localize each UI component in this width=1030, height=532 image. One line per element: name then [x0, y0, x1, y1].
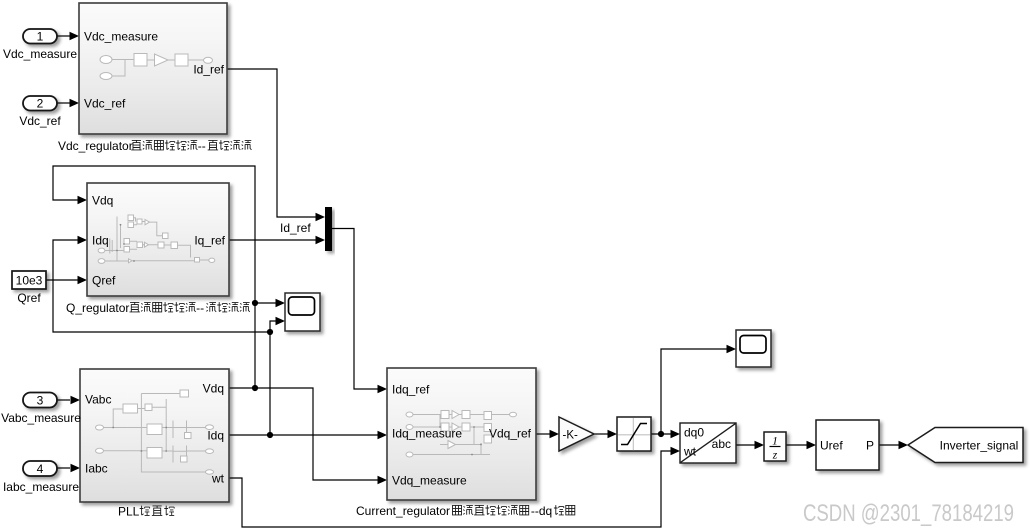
svg-text:Vdq: Vdq: [92, 193, 113, 207]
svg-text:3: 3: [37, 394, 44, 408]
svg-text:Iabc: Iabc: [85, 461, 108, 475]
svg-text:abc: abc: [712, 437, 731, 451]
svg-text:Id_ref: Id_ref: [280, 221, 311, 235]
svg-text:Id_ref: Id_ref: [193, 62, 224, 76]
svg-text:1: 1: [772, 436, 778, 448]
svg-text:Idq: Idq: [207, 428, 224, 442]
svg-text:--: --: [196, 301, 204, 315]
svg-text:-K-: -K-: [563, 429, 579, 441]
svg-text:CSDN @2301_78184219: CSDN @2301_78184219: [803, 500, 1014, 527]
svg-text:PLL: PLL: [118, 505, 140, 519]
svg-text:Idq: Idq: [92, 233, 109, 247]
svg-text:Idq_ref: Idq_ref: [392, 382, 430, 396]
svg-text:Vabc_measure: Vabc_measure: [1, 411, 81, 425]
svg-text:Vdq_ref: Vdq_ref: [489, 426, 532, 440]
svg-text:dq0: dq0: [684, 426, 704, 440]
svg-text:10e3: 10e3: [16, 274, 43, 288]
svg-text:P: P: [866, 438, 874, 452]
svg-text:--dq: --dq: [531, 504, 552, 518]
svg-text:wt: wt: [683, 445, 697, 459]
svg-text:Inverter_signal: Inverter_signal: [940, 438, 1019, 452]
svg-text:Q_regulator: Q_regulator: [66, 301, 129, 315]
svg-text:--: --: [198, 139, 206, 153]
svg-text:Idq_measure: Idq_measure: [392, 426, 462, 440]
svg-text:Vdc_ref: Vdc_ref: [19, 114, 61, 128]
svg-text:Qref: Qref: [17, 291, 41, 305]
svg-text:2: 2: [37, 97, 44, 111]
svg-text:Vdc_measure: Vdc_measure: [84, 29, 158, 43]
svg-text:Vdc_measure: Vdc_measure: [3, 47, 77, 61]
svg-text:Iabc_measure: Iabc_measure: [3, 480, 79, 494]
svg-text:1: 1: [37, 30, 44, 44]
svg-text:Iq_ref: Iq_ref: [194, 233, 225, 247]
svg-text:Vdq: Vdq: [203, 381, 224, 395]
svg-text:Uref: Uref: [820, 438, 843, 452]
svg-text:4: 4: [37, 462, 44, 476]
svg-text:Qref: Qref: [92, 273, 116, 287]
svg-text:Vdq_measure: Vdq_measure: [392, 473, 467, 487]
svg-text:wt: wt: [211, 471, 225, 485]
svg-text:Vabc: Vabc: [85, 392, 111, 406]
svg-text:Vdc_ref: Vdc_ref: [84, 96, 126, 110]
svg-text:z: z: [772, 450, 778, 462]
svg-text:Vdc_regulator: Vdc_regulator: [58, 139, 133, 153]
svg-text:Current_regulator: Current_regulator: [356, 504, 450, 518]
